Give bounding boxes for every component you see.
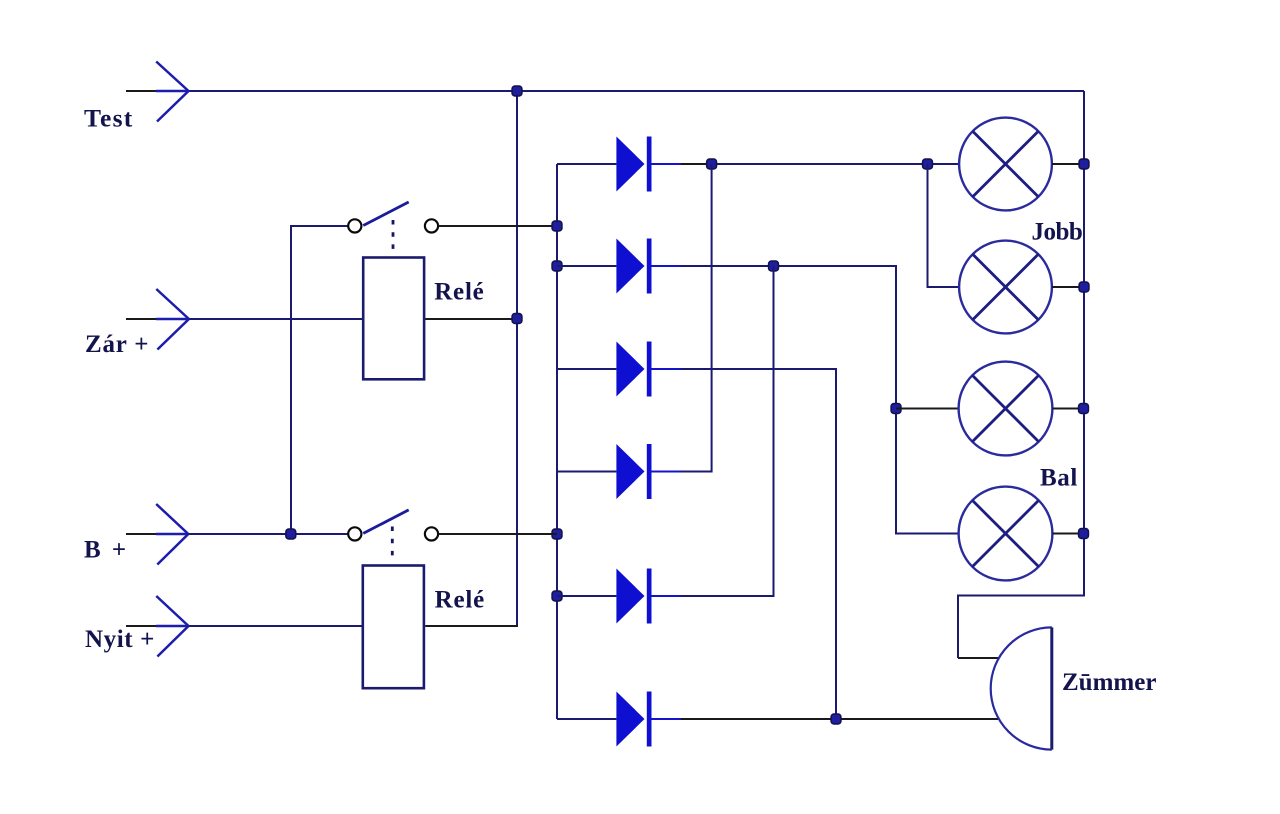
svg-text:Bal: Bal	[1040, 465, 1078, 492]
svg-text:Relé: Relé	[435, 587, 485, 614]
relay K2 coil	[363, 566, 424, 689]
svg-text:B +: B +	[84, 537, 129, 564]
node: branch junction on B+ row	[286, 529, 296, 539]
switch S1 contact left	[348, 219, 361, 232]
connector arrow: B + input	[156, 504, 188, 565]
wire: B+ input stub	[126, 533, 156, 535]
svg-text:Jobb: Jobb	[1032, 218, 1083, 245]
wire: lamp L1 to right rail	[1052, 163, 1084, 165]
wire: lamp L4 to right rail	[1052, 533, 1083, 535]
switch S1 blade	[363, 202, 408, 226]
node: D1/D4 junction	[707, 159, 717, 169]
node: diode D5 anode on rail	[552, 591, 562, 601]
relay K1 coil	[363, 258, 424, 380]
wire: right rail (top-right corner down to buzzer feed)	[958, 91, 1084, 658]
connector arrow: Zar + input	[156, 289, 189, 350]
diode D6	[557, 692, 681, 747]
wire: lamp L2 to right rail	[1052, 286, 1084, 288]
node: switch S2 output on diode rail	[552, 529, 562, 539]
wire: buzzer top terminal	[958, 657, 998, 659]
wire: B+ row to switch S2	[188, 533, 349, 535]
lamp L2	[959, 241, 1052, 334]
wire: Zar input stub	[126, 318, 156, 320]
wire: D2 row right and down to lamps L3/L4	[681, 266, 959, 534]
switch S2 actuator dashed link to relay K2	[391, 527, 394, 557]
lamp L1	[959, 118, 1052, 211]
switch S2 contact right	[425, 527, 438, 540]
svg-text:Test: Test	[84, 104, 134, 133]
diode D4	[557, 444, 681, 499]
node: lamp L1 feed junction	[923, 159, 933, 169]
diode D5	[557, 569, 681, 624]
diode D3	[557, 342, 681, 397]
wire: branch from switch1 input down to B+ line	[291, 226, 349, 534]
wire: D5 row up to D2 junction	[681, 266, 774, 596]
switch S2 contact left	[348, 527, 361, 540]
buzzer BZ1 flat side	[1050, 627, 1053, 749]
node: relay1 output junction on center rail	[512, 314, 522, 324]
wire: Zar + row to relay1 coil	[189, 318, 363, 320]
node: L2 on right rail	[1079, 282, 1089, 292]
wire: relay1 coil output to center rail	[425, 318, 517, 320]
node: junction top rail / center rail	[512, 86, 522, 96]
buzzer BZ1 body arc	[991, 627, 1052, 749]
node: D3/D6 junction	[831, 714, 841, 724]
switch S1 actuator dashed link to relay K1	[392, 220, 395, 250]
wire: D6 row to buzzer bottom terminal	[681, 718, 998, 720]
wire: Test top rail	[189, 90, 1085, 92]
wire: branch to lamp L3	[896, 408, 959, 410]
wire: lamp L3 to right rail	[1052, 408, 1083, 410]
node: switch S1 output on diode rail	[552, 221, 562, 231]
wire: relay2 coil output to center rail	[425, 625, 518, 627]
node: diode D2 anode on rail	[552, 261, 562, 271]
diode D2	[557, 239, 681, 294]
wire: switch S2 output to diode rail	[439, 533, 558, 535]
wire: D1 cathode to junction	[681, 163, 712, 165]
node: L3 on right rail	[1079, 404, 1089, 414]
wire: Nyit + row to relay2 coil	[189, 625, 363, 627]
node: D2/D5 junction	[769, 261, 779, 271]
lamp L4	[959, 487, 1053, 581]
wire: switch S1 output to diode rail	[439, 225, 558, 227]
connector arrow: Test input	[156, 62, 189, 122]
node: L4 on right rail	[1079, 529, 1089, 539]
wire: D1 row to lamp L1	[712, 163, 960, 165]
wire: Test input stub	[126, 90, 156, 92]
wire: diode anode rail x=557	[556, 164, 558, 719]
node: lamp L3 feed junction	[891, 404, 901, 414]
svg-text:Zūmmer: Zūmmer	[1062, 669, 1156, 696]
wire: D3 row right and down to D6 row	[681, 369, 836, 719]
node: L1 on right rail	[1079, 159, 1089, 169]
connector arrow: Nyit + input	[156, 596, 189, 657]
wire: branch from L1 feed down to lamp L2	[928, 164, 960, 287]
svg-text:Zár +: Zár +	[85, 331, 149, 358]
wire: center vertical rail x=517 down to relay2 output	[516, 91, 518, 627]
wire: Nyit input stub	[126, 625, 156, 627]
svg-text:Relé: Relé	[434, 279, 484, 306]
svg-text:Nyit +: Nyit +	[85, 626, 155, 653]
diode D1	[557, 137, 681, 192]
wire: D4 row up to D1 junction	[681, 164, 712, 472]
switch S2 blade	[363, 510, 408, 534]
switch S1 contact right	[425, 219, 438, 232]
lamp L3	[959, 362, 1053, 456]
